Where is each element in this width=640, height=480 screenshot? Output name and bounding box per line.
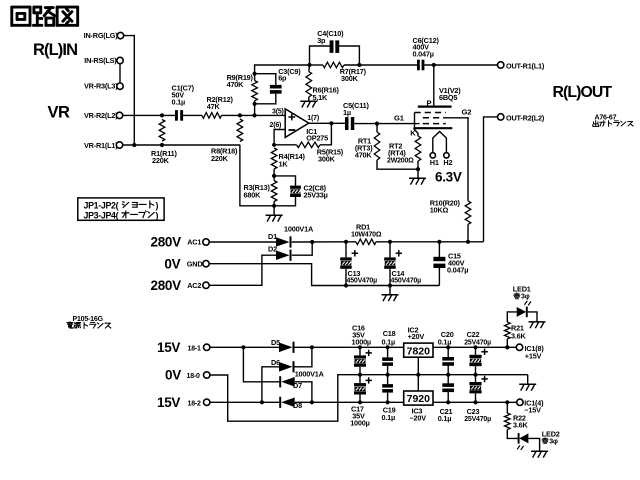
node C13 bottom bbox=[344, 283, 348, 287]
svg-text:LED1: LED1 bbox=[513, 284, 531, 293]
wire D6 to +20 rail bbox=[295, 347, 312, 367]
svg-text:IN-RS(LS): IN-RS(LS) bbox=[84, 56, 117, 65]
diode D2 bbox=[276, 250, 290, 260]
svg-text:300K: 300K bbox=[341, 74, 359, 83]
node D5/D6 join bbox=[310, 345, 314, 349]
node C20 mid bbox=[446, 373, 450, 377]
resistor R21 bbox=[505, 345, 509, 349]
svg-text:220K: 220K bbox=[152, 156, 170, 165]
svg-text:H2: H2 bbox=[443, 158, 452, 167]
resistor R6 bbox=[306, 72, 312, 98]
node R8 top bbox=[238, 113, 242, 117]
svg-text:7820: 7820 bbox=[407, 345, 431, 357]
svg-text:280V: 280V bbox=[151, 235, 182, 250]
node R4/R3/C2 bbox=[272, 174, 276, 178]
wire R9 column bbox=[254, 104, 256, 116]
svg-text:1K: 1K bbox=[279, 160, 289, 169]
svg-text:JP1-JP2(: JP1-JP2( bbox=[84, 200, 119, 210]
tube grid G2 dashes bbox=[423, 117, 446, 119]
svg-text:6BQ5: 6BQ5 bbox=[439, 93, 457, 102]
capacitor C13 bbox=[344, 240, 348, 244]
svg-text:OUT-R2(L2): OUT-R2(L2) bbox=[506, 113, 545, 122]
svg-text:VR-R3(L3): VR-R3(L3) bbox=[84, 82, 118, 91]
svg-text:1000V1A: 1000V1A bbox=[295, 370, 325, 379]
capacitor C16 bbox=[358, 345, 362, 349]
svg-text:6p: 6p bbox=[278, 74, 287, 83]
wire -15V rail bbox=[433, 401, 517, 403]
wire G1 into tube bbox=[414, 123, 420, 125]
svg-text:−15V: −15V bbox=[524, 405, 541, 414]
capacitor C21 bbox=[446, 400, 450, 404]
svg-text:R(L)IN: R(L)IN bbox=[33, 41, 77, 59]
svg-text:300K: 300K bbox=[318, 155, 336, 164]
svg-text:+15V: +15V bbox=[525, 352, 542, 361]
svg-text:G1: G1 bbox=[394, 113, 405, 122]
capacitor C2 bbox=[274, 176, 295, 186]
svg-text:1(7): 1(7) bbox=[307, 115, 319, 122]
svg-text:H1: H1 bbox=[430, 158, 439, 167]
svg-text:470K: 470K bbox=[355, 151, 373, 160]
wire 18-2 row bbox=[210, 401, 280, 403]
node regulator common bbox=[416, 373, 420, 377]
capacitor C3 bbox=[255, 74, 276, 85]
node D7 branch bbox=[241, 345, 245, 349]
terminal GND bbox=[203, 261, 209, 267]
note box JP jumpers bbox=[78, 198, 164, 220]
svg-text:OUT-R1(L1): OUT-R1(L1) bbox=[506, 62, 545, 71]
heater terminal H1 bbox=[430, 153, 435, 158]
wire GND to ground rail bbox=[209, 264, 439, 286]
svg-text:1000V1A: 1000V1A bbox=[284, 224, 314, 233]
svg-text:3φ: 3φ bbox=[521, 294, 530, 301]
svg-text:D6: D6 bbox=[271, 358, 280, 367]
resistor R7 feedback bbox=[310, 64, 323, 66]
node minus input bbox=[272, 143, 276, 147]
svg-text:A76-67: A76-67 bbox=[595, 115, 617, 122]
node output feedback bbox=[329, 121, 333, 125]
node C16 bottom bbox=[358, 373, 362, 377]
node plate lead bbox=[432, 63, 436, 67]
wire 18-0 route to 0V line bbox=[210, 375, 528, 422]
svg-text:LED2: LED2 bbox=[542, 430, 560, 439]
svg-text:0.047µ: 0.047µ bbox=[447, 265, 468, 274]
B+ rail bbox=[292, 241, 356, 243]
svg-text:3.6K: 3.6K bbox=[513, 421, 529, 430]
svg-text:D2: D2 bbox=[268, 244, 277, 253]
wire -20 rail bbox=[295, 401, 404, 403]
node C18 bottom bbox=[386, 373, 390, 377]
svg-text:K: K bbox=[410, 129, 416, 138]
resistor R2 bbox=[202, 113, 222, 119]
wire OUT-R2 to B+ rail bbox=[484, 117, 498, 242]
wire D2 to B+ rail bbox=[292, 242, 312, 255]
node R3/C2 bottom bbox=[272, 204, 276, 208]
svg-text:VR: VR bbox=[48, 104, 71, 122]
svg-text:3.6K: 3.6K bbox=[511, 331, 527, 340]
ground below RT2 bbox=[417, 169, 419, 178]
svg-text:450V470µ: 450V470µ bbox=[347, 278, 378, 285]
wire LED2 to ground bbox=[528, 438, 539, 451]
svg-text:0V: 0V bbox=[164, 257, 180, 272]
svg-text:0.1µ: 0.1µ bbox=[382, 413, 396, 422]
tube cathode bar bbox=[414, 127, 453, 129]
svg-text:(RT4): (RT4) bbox=[388, 149, 406, 158]
node R1 top bbox=[160, 113, 164, 117]
LED1 bbox=[517, 307, 527, 317]
resistor R3 bbox=[271, 181, 277, 202]
svg-text:220K: 220K bbox=[211, 154, 229, 163]
capacitor C20 bbox=[446, 345, 450, 349]
svg-text:2W200Ω: 2W200Ω bbox=[387, 158, 414, 165]
capacitor C4 parallel branch bbox=[310, 46, 331, 65]
node C3 top join bbox=[253, 72, 257, 76]
svg-text:10W470Ω: 10W470Ω bbox=[351, 232, 382, 239]
regulator IC3 7920 bbox=[404, 391, 433, 405]
svg-text:OP275: OP275 bbox=[306, 134, 328, 143]
capacitor C23 bbox=[473, 400, 477, 404]
svg-text:0.1µ: 0.1µ bbox=[172, 98, 186, 107]
wire D5 to +20 rail bbox=[295, 346, 404, 348]
svg-text:25V470µ: 25V470µ bbox=[464, 416, 491, 423]
svg-text:0.1µ: 0.1µ bbox=[438, 414, 452, 423]
resistor RT1 grid bbox=[374, 132, 380, 160]
svg-text:C23: C23 bbox=[467, 407, 480, 416]
op-amp IC1 OP275 bbox=[285, 109, 309, 138]
svg-text:VR-R2(L2): VR-R2(L2) bbox=[84, 111, 118, 120]
svg-text:R(L)OUT: R(L)OUT bbox=[553, 84, 613, 101]
svg-text:0.047µ: 0.047µ bbox=[413, 49, 434, 58]
svg-text:15V: 15V bbox=[157, 340, 180, 355]
wire AC2 to D2 bbox=[209, 255, 276, 285]
wire AC1 to D1 bbox=[209, 241, 276, 243]
svg-text:D5: D5 bbox=[271, 338, 280, 347]
svg-text:C22: C22 bbox=[467, 330, 480, 339]
wire regulator common bbox=[417, 357, 419, 391]
svg-text:18-2: 18-2 bbox=[188, 400, 202, 407]
svg-text:RD1: RD1 bbox=[356, 222, 370, 231]
heater terminal H2 bbox=[444, 153, 449, 158]
capacitor C17 bbox=[358, 400, 362, 404]
node C4 right join bbox=[357, 63, 361, 67]
wire D7 to -20 rail bbox=[295, 382, 312, 403]
heater filament bbox=[433, 132, 447, 153]
node R1 bottom bbox=[160, 143, 164, 147]
svg-text:450V470µ: 450V470µ bbox=[391, 278, 422, 285]
ground below R6 bbox=[300, 100, 317, 102]
svg-text:280V: 280V bbox=[151, 278, 182, 293]
resistor R5 feedback bbox=[274, 144, 297, 146]
svg-text:AC2: AC2 bbox=[187, 281, 201, 290]
svg-text:1000µ: 1000µ bbox=[350, 418, 369, 427]
svg-text:0.1µ: 0.1µ bbox=[438, 337, 452, 346]
resistor R22 bbox=[505, 400, 509, 404]
svg-text:25V470µ: 25V470µ bbox=[464, 339, 491, 346]
title 回路図 bbox=[12, 6, 30, 9]
capacitor C14 bbox=[388, 240, 392, 244]
tube grid G3 dashes bbox=[415, 112, 446, 114]
resistor RT2 cathode bbox=[414, 128, 419, 136]
svg-text:1µ: 1µ bbox=[343, 108, 351, 117]
capacitor C19 bbox=[386, 400, 390, 404]
resistor RD1 bbox=[356, 239, 376, 245]
diode D7 bbox=[243, 347, 280, 382]
node R9/C3 bottom bbox=[253, 113, 257, 117]
terminal OUT-R2(L2) bbox=[498, 114, 504, 120]
resistor R8 bbox=[237, 119, 243, 142]
wire LED1 to ground bbox=[528, 312, 537, 322]
svg-text:JP3-JP4(: JP3-JP4( bbox=[84, 210, 119, 220]
svg-text:G2: G2 bbox=[462, 108, 472, 117]
node R10 bottom bbox=[466, 240, 470, 244]
wire IN-RS to VR-R3 bbox=[119, 64, 121, 83]
capacitor C1 bbox=[175, 110, 178, 121]
diode D5 bbox=[279, 343, 293, 353]
ground LED2 bbox=[531, 450, 548, 452]
diode D6 bbox=[262, 367, 279, 403]
wire G2 to R10 bbox=[446, 118, 468, 201]
wire R9 top to feedback line bbox=[255, 65, 310, 74]
tube internal G3-cathode link bbox=[414, 113, 416, 128]
node R6 top / C4 branch bbox=[307, 63, 311, 67]
capacitor C5 coupling bbox=[309, 122, 345, 124]
wire 18-1 row bbox=[210, 346, 279, 348]
svg-text:18-1: 18-1 bbox=[188, 345, 202, 352]
wire +15V rail bbox=[433, 346, 516, 348]
tube grid G1 dashes bbox=[423, 123, 446, 125]
svg-text:0V: 0V bbox=[165, 368, 181, 383]
node cathode ground bbox=[416, 167, 420, 171]
node C3 bottom join bbox=[253, 102, 257, 106]
terminal IC1(8) +15V bbox=[505, 345, 509, 349]
svg-text:6.3V: 6.3V bbox=[435, 169, 462, 184]
node D7/D8 join bbox=[310, 400, 314, 404]
svg-text:25V33µ: 25V33µ bbox=[304, 190, 328, 199]
svg-text:10KΩ: 10KΩ bbox=[430, 205, 449, 214]
terminal 18-1 bbox=[204, 344, 210, 350]
svg-text:2(6): 2(6) bbox=[270, 122, 282, 129]
capacitor C18 bbox=[386, 345, 390, 349]
wire IN-RG to L1 row bbox=[124, 36, 135, 145]
plate lead bbox=[433, 65, 435, 107]
svg-text:P105-16G: P105-16G bbox=[73, 316, 104, 323]
terminal 18-2 bbox=[204, 399, 210, 405]
svg-text:VR-R1(L1): VR-R1(L1) bbox=[84, 141, 118, 150]
svg-text:): ) bbox=[156, 210, 159, 220]
regulator IC2 7820 bbox=[404, 343, 433, 357]
svg-text:7920: 7920 bbox=[407, 393, 431, 405]
ground below C14 bbox=[389, 286, 391, 295]
terminal AC1 bbox=[203, 239, 209, 245]
terminal IC1(4) -15V bbox=[517, 399, 523, 405]
svg-text:15V: 15V bbox=[157, 395, 180, 410]
diode D1 bbox=[276, 237, 290, 247]
ground 0V line end bbox=[527, 375, 529, 385]
wire signal row VR-R2 to op-amp + bbox=[123, 114, 176, 116]
resistor R4 bbox=[271, 148, 277, 169]
node C14 bottom bbox=[388, 283, 392, 287]
node D1/D2 join bbox=[310, 240, 314, 244]
svg-text:1000µ: 1000µ bbox=[352, 337, 371, 346]
wire op-amp minus input bbox=[274, 130, 285, 145]
node G1 / RT1 top bbox=[375, 122, 379, 126]
ground LED1 bbox=[529, 321, 546, 323]
node D6 branch bbox=[260, 400, 264, 404]
terminal 18-0 bbox=[204, 372, 210, 378]
ground below R3 bbox=[273, 206, 275, 216]
svg-text:GND: GND bbox=[187, 259, 203, 268]
svg-text:C13: C13 bbox=[348, 269, 361, 278]
svg-text:3(5): 3(5) bbox=[272, 109, 284, 116]
capacitor C6 coupling bbox=[417, 60, 420, 71]
svg-text:AC1: AC1 bbox=[187, 238, 201, 247]
svg-text:C14: C14 bbox=[392, 269, 406, 278]
resistor R1 bbox=[159, 120, 165, 142]
svg-text:+20V: +20V bbox=[408, 332, 425, 341]
resistor R10 screen bbox=[465, 201, 471, 225]
svg-text:3φ: 3φ bbox=[549, 438, 558, 445]
svg-text:0.1µ: 0.1µ bbox=[382, 337, 396, 346]
wire R8 bottom to ground line bbox=[240, 145, 274, 206]
terminal AC2 bbox=[203, 282, 209, 288]
svg-text:3p: 3p bbox=[317, 36, 326, 45]
svg-text:D1: D1 bbox=[268, 232, 277, 241]
junction on L1 row bbox=[132, 143, 136, 147]
node C22 mid bbox=[473, 373, 477, 377]
resistor R9 bbox=[252, 81, 258, 101]
LED2 bbox=[518, 433, 520, 444]
svg-text:470K: 470K bbox=[227, 80, 245, 89]
svg-text:47K: 47K bbox=[207, 102, 221, 111]
svg-text:IN-RG(LG): IN-RG(LG) bbox=[84, 31, 119, 40]
capacitor C15 bbox=[437, 240, 441, 244]
svg-text:−20V: −20V bbox=[410, 414, 427, 423]
terminal OUT-R1(L1) bbox=[498, 62, 504, 68]
svg-text:18-0: 18-0 bbox=[187, 373, 201, 380]
capacitor C22 bbox=[473, 345, 477, 349]
wire L1 row bbox=[123, 144, 241, 146]
svg-text:): ) bbox=[156, 200, 159, 210]
svg-text:680K: 680K bbox=[244, 190, 262, 199]
diode D8 bbox=[279, 397, 281, 408]
